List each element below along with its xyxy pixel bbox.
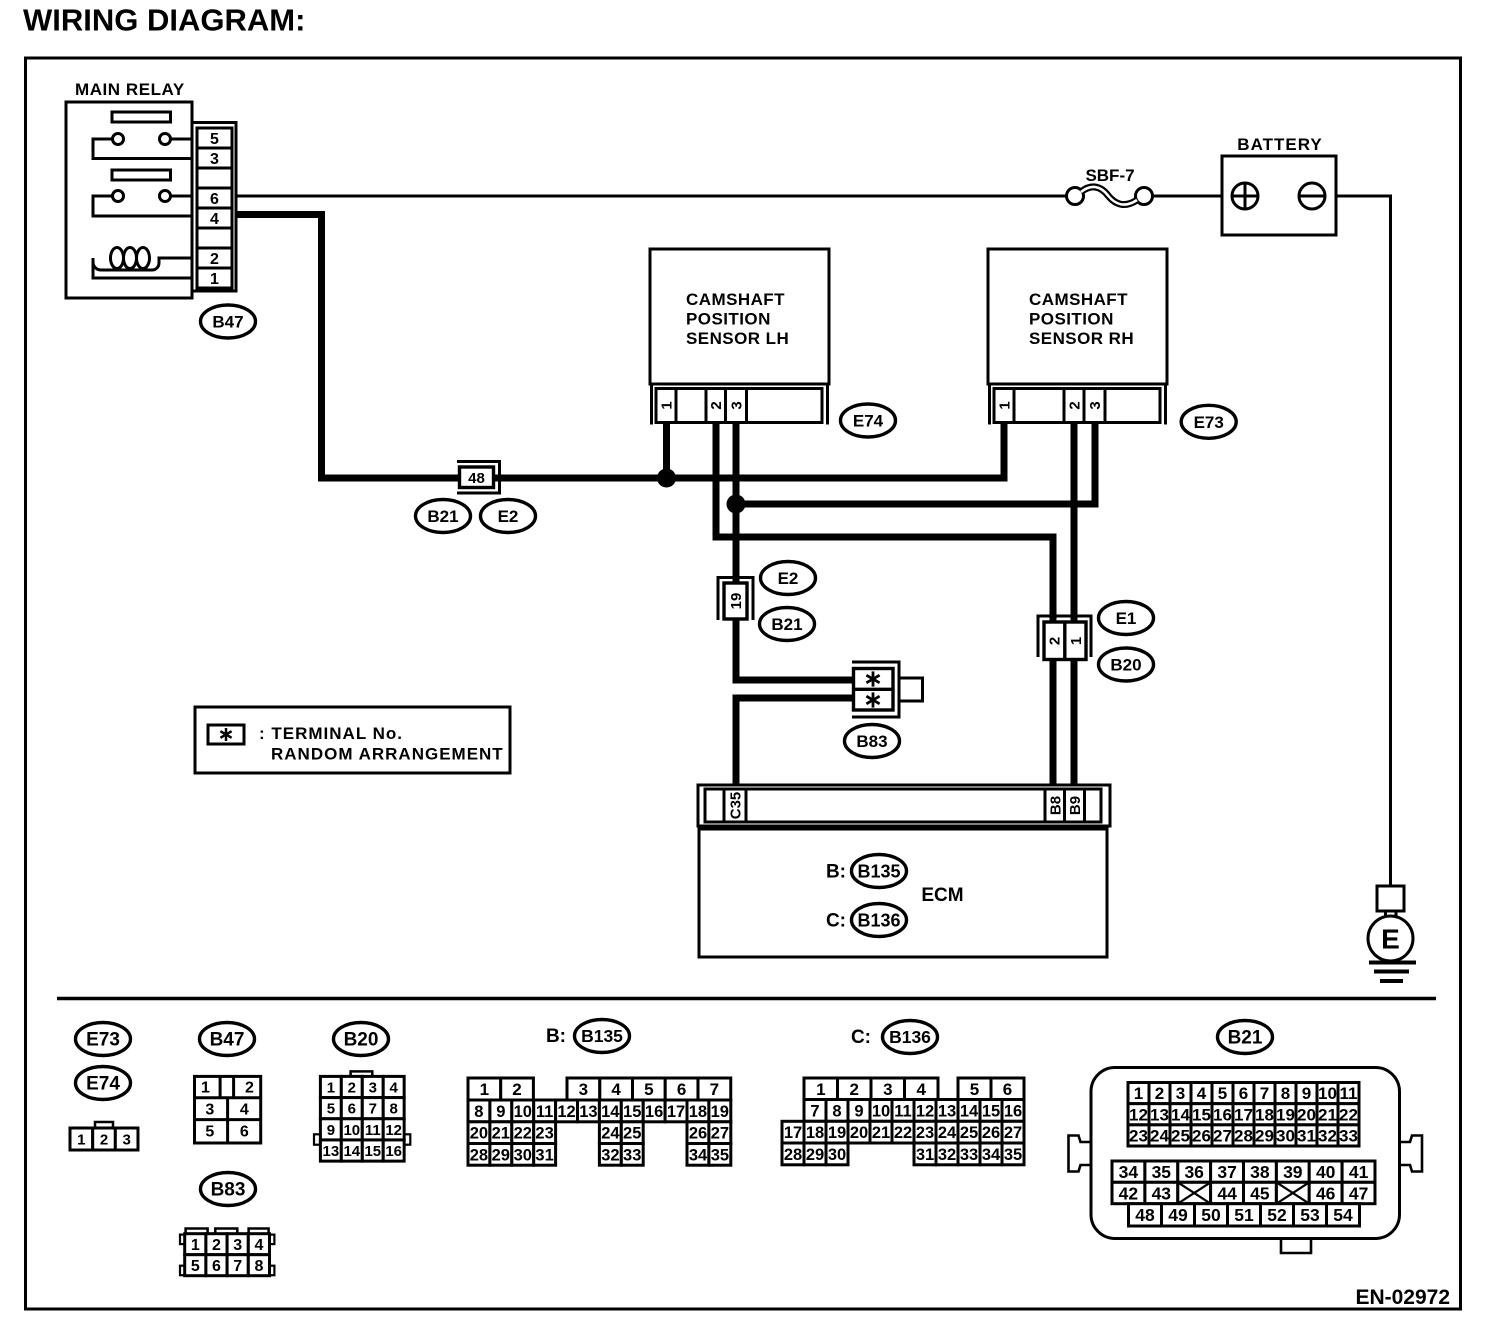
svg-text:15: 15 xyxy=(1192,1105,1211,1124)
svg-text:10: 10 xyxy=(872,1102,890,1120)
svg-text:35: 35 xyxy=(1004,1146,1022,1164)
svg-text:31: 31 xyxy=(535,1146,553,1164)
svg-text:2: 2 xyxy=(708,401,725,409)
svg-text:34: 34 xyxy=(1119,1162,1139,1182)
label E73 xyxy=(1181,405,1236,438)
svg-text:4: 4 xyxy=(390,1079,399,1096)
svg-text:6: 6 xyxy=(1003,1080,1012,1099)
label E2 xyxy=(481,500,536,533)
svg-text:17: 17 xyxy=(667,1103,685,1121)
wire fuse SBF-7 to battery positive xyxy=(1153,195,1233,198)
svg-text:13: 13 xyxy=(579,1103,597,1121)
svg-text:C:: C: xyxy=(851,1027,871,1048)
svg-text:MAIN RELAY: MAIN RELAY xyxy=(75,80,185,99)
svg-text:9: 9 xyxy=(496,1103,505,1121)
wire sensor RH pin 2 through connector B20 to ECM B9 xyxy=(1071,410,1078,810)
label B20 (pinout) xyxy=(334,1023,389,1056)
svg-text:11: 11 xyxy=(894,1102,911,1120)
svg-text:12: 12 xyxy=(916,1102,934,1120)
svg-text:26: 26 xyxy=(982,1124,1000,1142)
svg-text:25: 25 xyxy=(623,1125,641,1143)
svg-text:35: 35 xyxy=(1152,1162,1172,1182)
svg-text:3: 3 xyxy=(233,1237,242,1254)
svg-text:46: 46 xyxy=(1316,1183,1336,1203)
svg-text:50: 50 xyxy=(1201,1205,1221,1225)
svg-text:14: 14 xyxy=(1171,1105,1190,1124)
svg-text:1: 1 xyxy=(201,1080,210,1097)
svg-text:26: 26 xyxy=(1192,1127,1211,1146)
svg-text:10: 10 xyxy=(514,1103,532,1121)
connector pinout B47 6-pin xyxy=(195,1076,261,1143)
svg-text:WIRING DIAGRAM:: WIRING DIAGRAM: xyxy=(23,3,305,38)
svg-text:SENSOR RH: SENSOR RH xyxy=(1029,329,1134,348)
svg-text:17: 17 xyxy=(784,1124,802,1142)
svg-text:CAMSHAFT: CAMSHAFT xyxy=(1029,290,1128,309)
svg-text:3: 3 xyxy=(210,151,219,168)
svg-text:E2: E2 xyxy=(498,507,519,526)
label B21 xyxy=(416,500,471,533)
connector strip ECM (C35, B8, B9) xyxy=(698,785,1110,826)
svg-text:3: 3 xyxy=(883,1080,892,1099)
connector pinout B21 54-pin xyxy=(1069,1068,1423,1254)
label E74 xyxy=(841,404,896,437)
svg-text:48: 48 xyxy=(468,470,485,487)
wire battery negative to ground E xyxy=(1325,196,1391,886)
battery xyxy=(1222,135,1336,235)
svg-text:20: 20 xyxy=(470,1125,488,1143)
svg-text:B20: B20 xyxy=(344,1030,379,1051)
svg-text:9: 9 xyxy=(854,1102,863,1120)
svg-text:32: 32 xyxy=(601,1146,619,1164)
label E74 (pinout) xyxy=(76,1067,131,1100)
svg-text:37: 37 xyxy=(1217,1162,1236,1182)
svg-text:11: 11 xyxy=(1340,1084,1358,1103)
label E2 xyxy=(761,562,816,595)
svg-text:54: 54 xyxy=(1333,1205,1353,1225)
svg-text:6: 6 xyxy=(240,1124,249,1141)
svg-text:13: 13 xyxy=(1150,1105,1169,1124)
wire sensor LH pin 3 to sensor RH pin 3 xyxy=(736,410,1095,504)
svg-text:E1: E1 xyxy=(1116,609,1137,628)
svg-text:12: 12 xyxy=(385,1122,402,1139)
svg-text:CAMSHAFT: CAMSHAFT xyxy=(686,290,785,309)
svg-text:29: 29 xyxy=(806,1146,824,1164)
connector pinout B83 8-pin xyxy=(180,1229,274,1276)
wire sensor LH pin 2 through connector B20 to ECM B8 xyxy=(716,410,1053,810)
svg-text:26: 26 xyxy=(689,1125,707,1143)
svg-text:1: 1 xyxy=(210,271,219,288)
label B83 xyxy=(845,725,900,758)
svg-text:2: 2 xyxy=(212,1237,221,1254)
svg-text:BATTERY: BATTERY xyxy=(1237,135,1322,154)
svg-text:5: 5 xyxy=(327,1101,335,1118)
svg-text:1: 1 xyxy=(191,1237,200,1254)
svg-text:7: 7 xyxy=(369,1101,377,1118)
svg-text:43: 43 xyxy=(1152,1183,1172,1203)
svg-text:1: 1 xyxy=(1134,1084,1143,1103)
svg-text:23: 23 xyxy=(916,1124,934,1142)
svg-text:53: 53 xyxy=(1300,1205,1320,1225)
svg-text:B83: B83 xyxy=(856,732,887,751)
svg-text:5: 5 xyxy=(970,1080,979,1099)
svg-text:4: 4 xyxy=(611,1080,621,1099)
label B47 xyxy=(201,305,256,338)
svg-text:8: 8 xyxy=(474,1103,483,1121)
svg-text:ECM: ECM xyxy=(921,885,963,906)
svg-text:10: 10 xyxy=(1318,1084,1337,1103)
svg-text:18: 18 xyxy=(1255,1105,1274,1124)
svg-text:14: 14 xyxy=(960,1102,979,1120)
svg-text:20: 20 xyxy=(850,1124,868,1142)
svg-text:14: 14 xyxy=(601,1103,620,1121)
label B47 (pinout) xyxy=(200,1023,255,1056)
label E1 xyxy=(1099,602,1154,635)
svg-text:18: 18 xyxy=(806,1124,824,1142)
svg-text:C35: C35 xyxy=(727,792,744,820)
connector 48 (inline, B21-E2) xyxy=(457,462,500,494)
svg-text:5: 5 xyxy=(205,1124,214,1141)
svg-text:35: 35 xyxy=(711,1146,729,1164)
connector B47 (main relay connector, pins 5,3,6,4,2,1) xyxy=(192,123,236,292)
label B21 (pinout) xyxy=(1218,1021,1273,1054)
svg-text:30: 30 xyxy=(1276,1127,1295,1146)
svg-text:8: 8 xyxy=(832,1102,841,1120)
svg-text:POSITION: POSITION xyxy=(1029,310,1114,329)
svg-text:19: 19 xyxy=(828,1124,846,1142)
svg-text:5: 5 xyxy=(191,1258,200,1275)
svg-text:33: 33 xyxy=(960,1146,978,1164)
svg-text:E74: E74 xyxy=(853,412,884,431)
svg-text:24: 24 xyxy=(938,1124,957,1142)
svg-text:47: 47 xyxy=(1349,1183,1368,1203)
ECM xyxy=(699,829,1107,957)
svg-text:B135: B135 xyxy=(581,1026,623,1046)
svg-text:18: 18 xyxy=(689,1103,707,1121)
svg-text:39: 39 xyxy=(1283,1162,1303,1182)
svg-text:25: 25 xyxy=(1171,1127,1190,1146)
svg-text:3: 3 xyxy=(579,1080,588,1099)
svg-text:1: 1 xyxy=(658,401,675,409)
svg-text:EN-02972: EN-02972 xyxy=(1355,1286,1450,1309)
svg-text:2: 2 xyxy=(849,1080,858,1099)
svg-text:22: 22 xyxy=(894,1124,912,1142)
svg-text:7: 7 xyxy=(1260,1084,1269,1103)
label B83 (pinout) xyxy=(201,1173,256,1206)
svg-text:B21: B21 xyxy=(771,615,802,634)
svg-text:21: 21 xyxy=(872,1124,890,1142)
svg-text:28: 28 xyxy=(1234,1127,1253,1146)
svg-text:34: 34 xyxy=(689,1146,708,1164)
svg-text:2: 2 xyxy=(100,1131,108,1148)
svg-text:1: 1 xyxy=(77,1131,85,1148)
svg-text:41: 41 xyxy=(1349,1162,1369,1182)
svg-text:SBF-7: SBF-7 xyxy=(1085,166,1134,185)
svg-text:1: 1 xyxy=(480,1080,489,1099)
svg-text:B20: B20 xyxy=(1110,656,1141,675)
svg-text:1: 1 xyxy=(327,1079,335,1096)
svg-text:2: 2 xyxy=(245,1080,254,1097)
svg-text:12: 12 xyxy=(557,1103,575,1121)
svg-text:22: 22 xyxy=(1339,1105,1358,1124)
svg-text:30: 30 xyxy=(514,1146,532,1164)
connector B20 (inline, pins 2,1 / E1) xyxy=(1038,616,1091,660)
svg-text:28: 28 xyxy=(784,1146,802,1164)
svg-text:B:: B: xyxy=(826,862,846,883)
svg-text:2: 2 xyxy=(1155,1084,1164,1103)
svg-text:31: 31 xyxy=(1297,1127,1316,1146)
svg-text:B8: B8 xyxy=(1047,796,1064,815)
junction sensor LH pin 3 / sensor RH pin 3 xyxy=(727,495,746,514)
svg-text:6: 6 xyxy=(677,1080,686,1099)
svg-text:B135: B135 xyxy=(857,861,900,881)
component B83 (terminal, random arrangement) xyxy=(852,662,923,717)
svg-text:40: 40 xyxy=(1316,1162,1336,1182)
svg-text:16: 16 xyxy=(645,1103,663,1121)
svg-text:3: 3 xyxy=(1087,401,1104,409)
connector E73 (sensor RH pins 1,2,3) xyxy=(990,384,1166,425)
svg-text:13: 13 xyxy=(938,1102,956,1120)
svg-text:31: 31 xyxy=(916,1146,934,1164)
svg-text:8: 8 xyxy=(254,1258,263,1275)
label B21 xyxy=(760,608,815,641)
camshaft position sensor RH xyxy=(988,249,1167,384)
svg-text:19: 19 xyxy=(711,1103,729,1121)
svg-text:2: 2 xyxy=(512,1080,521,1099)
svg-text:52: 52 xyxy=(1267,1205,1287,1225)
svg-text:5: 5 xyxy=(644,1080,653,1099)
svg-text:B136: B136 xyxy=(857,910,900,930)
svg-text:29: 29 xyxy=(1255,1127,1274,1146)
svg-text:4: 4 xyxy=(1197,1084,1207,1103)
svg-text:2: 2 xyxy=(210,251,219,268)
svg-text:32: 32 xyxy=(1318,1127,1337,1146)
svg-text:6: 6 xyxy=(1239,1084,1248,1103)
connector pinout B135 xyxy=(468,1078,731,1165)
svg-text:2: 2 xyxy=(348,1079,356,1096)
svg-text:1: 1 xyxy=(996,401,1013,409)
svg-text:4: 4 xyxy=(210,211,219,228)
svg-text:17: 17 xyxy=(1234,1105,1253,1124)
svg-text:E2: E2 xyxy=(778,569,799,588)
svg-text:14: 14 xyxy=(343,1143,360,1160)
svg-text:5: 5 xyxy=(1218,1084,1227,1103)
svg-text:E74: E74 xyxy=(86,1074,120,1095)
svg-text:B83: B83 xyxy=(211,1180,246,1201)
svg-text:1: 1 xyxy=(816,1080,825,1099)
svg-text:4: 4 xyxy=(240,1102,249,1119)
svg-text:42: 42 xyxy=(1119,1183,1139,1203)
connector pinout B136 xyxy=(782,1078,1024,1165)
svg-text:33: 33 xyxy=(1339,1127,1358,1146)
svg-text:38: 38 xyxy=(1250,1162,1270,1182)
svg-text:: TERMINAL No.: : TERMINAL No. xyxy=(259,724,403,743)
svg-text:21: 21 xyxy=(492,1125,510,1143)
svg-text:E: E xyxy=(1381,924,1400,955)
svg-text:B47: B47 xyxy=(212,313,243,332)
svg-text:5: 5 xyxy=(210,131,219,148)
connector pinout E73/E74 3-pin xyxy=(70,1122,138,1150)
svg-text:48: 48 xyxy=(1135,1205,1155,1225)
wire camshaft sensor LH pin 3 drop xyxy=(733,410,740,504)
svg-text:SENSOR LH: SENSOR LH xyxy=(686,329,789,348)
camshaft position sensor LH xyxy=(650,249,829,384)
svg-text:POSITION: POSITION xyxy=(686,310,771,329)
svg-text:3: 3 xyxy=(369,1079,377,1096)
svg-text:3: 3 xyxy=(205,1102,214,1119)
fuse SBF-7 xyxy=(1067,166,1153,205)
svg-text:44: 44 xyxy=(1217,1183,1237,1203)
connector 19 (inline, E2-B21) xyxy=(718,578,753,621)
svg-text:27: 27 xyxy=(1004,1124,1022,1142)
svg-text:E73: E73 xyxy=(86,1030,120,1051)
svg-text:C:: C: xyxy=(826,911,846,932)
svg-text:51: 51 xyxy=(1234,1205,1254,1225)
label E73 (pinout) xyxy=(76,1023,131,1056)
svg-text:49: 49 xyxy=(1168,1205,1188,1225)
svg-text:E73: E73 xyxy=(1194,413,1224,432)
ground E xyxy=(1368,886,1416,981)
svg-text:11: 11 xyxy=(365,1122,381,1139)
svg-text:12: 12 xyxy=(1129,1105,1148,1124)
svg-text:B21: B21 xyxy=(427,507,458,526)
svg-text:15: 15 xyxy=(364,1143,381,1160)
svg-text:3: 3 xyxy=(728,401,745,409)
svg-text:20: 20 xyxy=(1297,1105,1316,1124)
svg-text:13: 13 xyxy=(323,1143,340,1160)
svg-text:16: 16 xyxy=(385,1143,402,1160)
svg-text:28: 28 xyxy=(470,1146,488,1164)
svg-text:25: 25 xyxy=(960,1124,978,1142)
svg-text:3: 3 xyxy=(123,1131,131,1148)
svg-text:RANDOM ARRANGEMENT: RANDOM ARRANGEMENT xyxy=(271,745,504,764)
junction sensor LH pin 1 / relay feed xyxy=(657,469,676,488)
wire B83 terminal to ECM C35 xyxy=(736,698,854,810)
svg-text:4: 4 xyxy=(916,1080,926,1099)
svg-text:24: 24 xyxy=(601,1125,620,1143)
svg-text:33: 33 xyxy=(623,1146,641,1164)
svg-text:15: 15 xyxy=(982,1102,1000,1120)
svg-text:45: 45 xyxy=(1250,1183,1270,1203)
svg-text:B136: B136 xyxy=(889,1027,931,1047)
svg-text:B21: B21 xyxy=(1228,1028,1263,1049)
svg-text:24: 24 xyxy=(1150,1127,1169,1146)
svg-text:22: 22 xyxy=(514,1125,532,1143)
svg-text:10: 10 xyxy=(343,1122,360,1139)
svg-text:2: 2 xyxy=(1046,637,1063,645)
svg-text:2: 2 xyxy=(1066,401,1083,409)
wire main relay pin 6 to fuse SBF-7 (battery feed) xyxy=(236,195,1067,198)
svg-text:36: 36 xyxy=(1184,1162,1204,1182)
svg-text:19: 19 xyxy=(728,593,745,610)
svg-text:11: 11 xyxy=(536,1103,553,1121)
svg-text:8: 8 xyxy=(1281,1084,1290,1103)
svg-text:16: 16 xyxy=(1004,1102,1022,1120)
svg-text:7: 7 xyxy=(233,1258,242,1275)
svg-text:6: 6 xyxy=(210,191,219,208)
svg-text:6: 6 xyxy=(348,1101,356,1118)
connector pinout B20 16-pin xyxy=(314,1071,410,1161)
legend terminal no. random arrangement xyxy=(195,707,510,773)
svg-text:27: 27 xyxy=(711,1125,729,1143)
svg-text:21: 21 xyxy=(1318,1105,1337,1124)
wire sensor LH pin 3 junction through connector 19 to B83 terminal xyxy=(736,504,854,680)
svg-text:19: 19 xyxy=(1276,1105,1295,1124)
svg-text:27: 27 xyxy=(1213,1127,1232,1146)
svg-text:7: 7 xyxy=(810,1102,819,1120)
svg-text:3: 3 xyxy=(1176,1084,1185,1103)
svg-text:6: 6 xyxy=(212,1258,221,1275)
svg-text:9: 9 xyxy=(1302,1084,1311,1103)
svg-text:34: 34 xyxy=(982,1146,1001,1164)
svg-text:8: 8 xyxy=(390,1101,398,1118)
wire main relay pin 4 through connector 48 to sensor LH pin 1 and sensor RH pin 1 xyxy=(236,215,1004,479)
svg-text:B9: B9 xyxy=(1067,796,1084,815)
svg-text:32: 32 xyxy=(938,1146,956,1164)
wire camshaft sensor LH pin 1 drop xyxy=(663,410,670,478)
svg-text:23: 23 xyxy=(1129,1127,1148,1146)
svg-text:B:: B: xyxy=(546,1026,566,1047)
svg-text:B47: B47 xyxy=(210,1030,245,1051)
svg-text:7: 7 xyxy=(710,1080,719,1099)
svg-text:15: 15 xyxy=(623,1103,641,1121)
connector E74 (sensor LH pins 1,2,3) xyxy=(652,384,828,425)
svg-text:16: 16 xyxy=(1213,1105,1232,1124)
svg-text:1: 1 xyxy=(1068,637,1085,645)
label B20 xyxy=(1099,648,1154,681)
svg-text:9: 9 xyxy=(327,1122,335,1139)
relay MAIN RELAY xyxy=(66,80,192,298)
svg-text:4: 4 xyxy=(254,1237,263,1254)
svg-text:29: 29 xyxy=(492,1146,510,1164)
svg-text:30: 30 xyxy=(828,1146,846,1164)
svg-text:23: 23 xyxy=(535,1125,553,1143)
